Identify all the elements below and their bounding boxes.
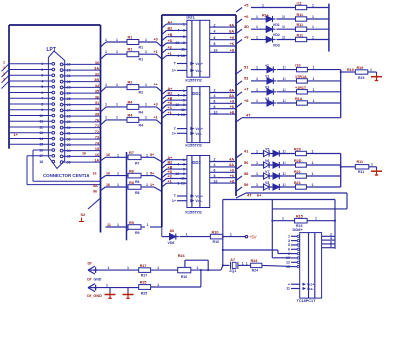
svg-text:1: 1: [256, 183, 258, 187]
svg-text:3: 3: [183, 163, 185, 167]
svg-text:+1: +1: [265, 63, 269, 67]
svg-text:R11: R11: [358, 170, 364, 174]
svg-text:ТС18РС1Т: ТС18РС1Т: [297, 299, 317, 303]
svg-text:R11: R11: [357, 160, 364, 164]
svg-text:31: 31: [95, 101, 99, 105]
svg-text:18: 18: [39, 160, 43, 164]
svg-text:+3: +3: [168, 46, 172, 50]
svg-text:96: 96: [93, 190, 97, 194]
svg-text:11: 11: [181, 177, 185, 181]
svg-text:R6: R6: [135, 180, 140, 184]
svg-text:R24: R24: [251, 259, 259, 263]
svg-text:1: 1: [105, 50, 107, 54]
svg-text:R1A: R1A: [295, 97, 303, 101]
svg-text:1: 1: [116, 38, 118, 42]
svg-text:+6: +6: [230, 174, 234, 178]
svg-text:1: 1: [177, 54, 179, 58]
svg-text:R11: R11: [297, 23, 304, 27]
svg-text:Vcc+: Vcc+: [195, 127, 203, 131]
svg-text:10: 10: [214, 110, 218, 114]
svg-text:1: 1: [108, 266, 110, 270]
svg-text:1: 1: [117, 153, 119, 157]
svg-text:1: 1: [197, 266, 199, 270]
svg-text:13: 13: [181, 181, 185, 185]
svg-text:К155ТЛ2: К155ТЛ2: [185, 210, 202, 215]
svg-text:V3: V3: [265, 86, 269, 90]
svg-text:1!: 1!: [283, 150, 286, 154]
svg-text:1!: 1!: [282, 36, 285, 40]
svg-text:R11: R11: [297, 34, 304, 38]
svg-text:+8: +8: [230, 110, 234, 114]
svg-text:13: 13: [286, 265, 290, 269]
svg-text:1: 1: [256, 15, 258, 19]
svg-text:1: 1: [117, 223, 119, 227]
svg-text:8A: 8A: [229, 163, 234, 167]
svg-text:16: 16: [106, 153, 110, 157]
svg-text:Vcc-: Vcc-: [195, 199, 202, 203]
svg-text:1: 1: [146, 153, 148, 157]
svg-text:11: 11: [286, 287, 290, 291]
svg-text:6: 6: [214, 100, 216, 104]
svg-text:16: 16: [106, 171, 110, 175]
svg-text:R1: R1: [139, 45, 144, 49]
svg-text:8: 8: [330, 244, 332, 248]
svg-text:+T: +T: [244, 87, 249, 92]
svg-text:4A: 4A: [229, 158, 234, 162]
svg-text:4: 4: [214, 30, 216, 34]
svg-text:R19: R19: [358, 76, 364, 80]
svg-text:1+: 1+: [172, 69, 176, 73]
svg-text:72: 72: [95, 130, 99, 134]
svg-text:R2: R2: [128, 81, 133, 85]
svg-text:DD2: DD2: [192, 91, 201, 96]
svg-text:36: 36: [95, 61, 99, 65]
svg-text:R21: R21: [294, 170, 301, 174]
svg-text:1!: 1!: [283, 172, 286, 176]
svg-text:1: 1: [256, 88, 258, 92]
svg-text:8A: 8A: [229, 94, 234, 98]
svg-text:9: 9: [183, 103, 185, 107]
svg-text:1: 1: [147, 223, 149, 227]
svg-text:1: 1: [186, 233, 188, 237]
svg-text:1: 1: [313, 99, 315, 103]
svg-text:1: 1: [230, 233, 232, 237]
svg-text:1: 1: [315, 217, 317, 221]
svg-text:1: 1: [262, 4, 264, 8]
svg-text:3B: 3B: [94, 78, 99, 82]
svg-text:CONNECTOR CENT16: CONNECTOR CENT16: [43, 173, 90, 178]
svg-text:+0: +0: [154, 38, 158, 42]
svg-text:2: 2: [214, 23, 216, 27]
svg-text:+5V: +5V: [249, 235, 257, 240]
svg-text:1: 1: [312, 25, 314, 29]
svg-text:1: 1: [183, 89, 185, 93]
svg-text:1: 1: [312, 150, 314, 154]
svg-text:13: 13: [181, 54, 185, 58]
svg-text:+D: +D: [168, 170, 173, 174]
svg-text:1: 1: [313, 66, 315, 70]
svg-text:3: 3: [183, 29, 185, 33]
svg-text:V4: V4: [265, 97, 269, 101]
svg-text:+8: +8: [230, 179, 234, 183]
svg-text:4: 4: [177, 29, 179, 33]
svg-text:+3: +3: [154, 103, 158, 107]
svg-text:9: 9: [183, 41, 185, 45]
svg-text:1: 1: [312, 183, 314, 187]
svg-text:35: 35: [95, 90, 99, 94]
svg-text:8A: 8A: [229, 30, 234, 34]
svg-text:+3: +3: [168, 106, 172, 110]
svg-text:1!: 1!: [282, 25, 285, 29]
svg-text:Vcc-: Vcc-: [195, 132, 202, 136]
svg-text:1!: 1!: [282, 15, 285, 19]
svg-text:32: 32: [95, 72, 99, 76]
svg-text:+1: +1: [168, 179, 172, 183]
svg-text:1: 1: [370, 68, 372, 72]
svg-text:R4: R4: [139, 110, 144, 114]
svg-text:DD8+: DD8+: [293, 227, 304, 232]
svg-text:1: 1: [256, 36, 258, 40]
svg-text:1: 1: [371, 162, 373, 166]
svg-text:10: 10: [175, 172, 179, 176]
svg-text:R19: R19: [357, 66, 364, 70]
svg-text:1: 1: [105, 116, 107, 120]
svg-text:Df: Df: [88, 261, 93, 266]
svg-text:R1: R1: [139, 58, 144, 62]
svg-text:A7: A7: [230, 258, 235, 262]
svg-text:50: 50: [244, 160, 248, 165]
svg-text:2: 2: [214, 89, 216, 93]
svg-text:+1: +1: [154, 116, 158, 120]
svg-text:6: 6: [214, 169, 216, 173]
svg-text:1: 1: [116, 83, 118, 87]
svg-text:+B: +B: [168, 96, 173, 100]
svg-text:1: 1: [256, 77, 258, 81]
svg-text:R11: R11: [297, 13, 304, 17]
svg-text:К155ТЛ2: К155ТЛ2: [185, 78, 202, 83]
svg-text:1: 1: [116, 50, 118, 54]
svg-text:1: 1: [242, 261, 244, 265]
svg-text:1!: 1!: [283, 183, 286, 187]
svg-text:5: 5: [183, 98, 185, 102]
svg-text:4T: 4T: [247, 193, 252, 198]
svg-text:+B: +B: [168, 165, 173, 169]
svg-text:VD2: VD2: [273, 33, 280, 37]
svg-text:1+: 1+: [14, 132, 19, 137]
svg-text:DD3: DD3: [192, 160, 201, 165]
svg-text:A+: A+: [168, 156, 173, 160]
svg-text:Df_GND: Df_GND: [87, 294, 102, 298]
svg-text:Vcc+: Vcc+: [195, 195, 203, 199]
svg-text:r10: r10: [295, 64, 301, 68]
svg-text:R10: R10: [212, 230, 219, 234]
svg-text:2: 2: [214, 158, 216, 162]
svg-text:+D: +D: [168, 101, 173, 105]
svg-text:1: 1: [3, 78, 5, 82]
svg-text:+1: +1: [154, 50, 158, 54]
svg-text:1: 1: [146, 183, 148, 187]
svg-text:1: 1: [116, 103, 118, 107]
svg-text:73: 73: [95, 136, 99, 140]
svg-text:R8: R8: [135, 191, 140, 195]
svg-text:1: 1: [3, 66, 5, 70]
svg-text:1!: 1!: [283, 88, 286, 92]
svg-text:1: 1: [312, 172, 314, 176]
svg-text:1: 1: [145, 103, 147, 107]
svg-text:76: 76: [95, 118, 99, 122]
svg-text:R1: R1: [128, 48, 133, 52]
svg-text:B2: B2: [168, 161, 173, 165]
svg-text:11: 11: [107, 223, 111, 227]
svg-text:1: 1: [177, 113, 179, 117]
svg-text:3: 3: [183, 94, 185, 98]
svg-text:DD1: DD1: [186, 15, 195, 20]
svg-text:R25: R25: [141, 291, 148, 295]
svg-text:1: 1: [183, 158, 185, 162]
svg-text:1+: 1+: [150, 183, 154, 187]
svg-text:R1: R1: [128, 35, 133, 39]
svg-text:+9: +9: [230, 36, 234, 40]
svg-text:39: 39: [95, 113, 99, 117]
svg-text:R16: R16: [181, 275, 188, 279]
svg-text:1: 1: [3, 72, 5, 76]
svg-text:16: 16: [82, 151, 86, 155]
svg-text:1: 1: [256, 172, 258, 176]
svg-text:1: 1: [183, 22, 185, 26]
svg-text:R19: R19: [347, 68, 354, 72]
svg-text:3A: 3A: [94, 67, 99, 71]
svg-text:1: 1: [246, 261, 248, 265]
svg-text:13: 13: [181, 113, 185, 117]
svg-text:1: 1: [282, 217, 284, 221]
svg-text:1: 1: [256, 99, 258, 103]
svg-text:+9: +9: [230, 169, 234, 173]
svg-text:36: 36: [95, 95, 99, 99]
svg-text:R17: R17: [140, 264, 147, 268]
svg-text:4D: 4D: [170, 229, 175, 233]
svg-text:1: 1: [312, 161, 314, 165]
svg-text:+6: +6: [230, 42, 234, 46]
svg-text:R25: R25: [140, 280, 147, 284]
svg-text:1: 1: [146, 172, 148, 176]
svg-text:1: 1: [145, 38, 147, 42]
svg-text:++: ++: [154, 83, 158, 87]
svg-text:+1R1T: +1R1T: [295, 86, 307, 90]
svg-text:1: 1: [117, 183, 119, 187]
svg-text:R9: R9: [129, 221, 134, 225]
svg-text:16: 16: [95, 153, 99, 157]
svg-text:B21: B21: [294, 181, 301, 185]
svg-text:Vcc+: Vcc+: [195, 62, 203, 66]
svg-text:10: 10: [214, 179, 218, 183]
svg-text:GND: GND: [94, 277, 102, 281]
svg-text:1TR1A: 1TR1A: [295, 75, 307, 79]
svg-text:10: 10: [175, 103, 179, 107]
svg-text:1: 1: [106, 284, 108, 288]
svg-text:R1+: R1+: [262, 13, 269, 17]
svg-text:4A: 4A: [229, 23, 234, 27]
svg-text:8: 8: [214, 42, 216, 46]
svg-text:4: 4: [177, 163, 179, 167]
svg-text:R20: R20: [294, 148, 301, 152]
svg-text:4: 4: [214, 94, 216, 98]
svg-text:Y5: Y5: [265, 147, 269, 151]
svg-text:6: 6: [214, 36, 216, 40]
svg-text:1: 1: [116, 116, 118, 120]
svg-text:R7: R7: [135, 162, 140, 166]
svg-text:Y1: Y1: [265, 75, 269, 79]
svg-text:+B: +B: [168, 33, 173, 37]
svg-text:5: 5: [183, 35, 185, 39]
svg-text:38: 38: [95, 107, 99, 111]
svg-text:S2: S2: [81, 213, 86, 217]
svg-text:1: 1: [3, 60, 5, 64]
svg-text:5: 5: [183, 167, 185, 171]
svg-text:VD1: VD1: [273, 23, 280, 27]
svg-text:R15: R15: [296, 214, 303, 218]
svg-text:1: 1: [312, 15, 314, 19]
svg-text:1: 1: [145, 116, 147, 120]
svg-text:1: 1: [312, 36, 314, 40]
svg-text:1A: 1A: [94, 159, 99, 163]
svg-text:4: 4: [177, 94, 179, 98]
svg-text:1+: 1+: [172, 199, 176, 203]
svg-text:8: 8: [214, 174, 216, 178]
svg-text:1: 1: [177, 181, 179, 185]
svg-text:9: 9: [183, 172, 185, 176]
svg-text:1+: 1+: [172, 132, 176, 136]
svg-text:B2: B2: [168, 27, 173, 31]
svg-text:R17: R17: [141, 274, 148, 278]
svg-text:R7: R7: [129, 151, 134, 155]
svg-text:ZQ1: ZQ1: [229, 269, 236, 273]
svg-text:Vcc-: Vcc-: [195, 69, 202, 73]
svg-text:R24: R24: [252, 269, 258, 273]
svg-text:10: 10: [214, 49, 218, 53]
svg-text:R2: R2: [139, 91, 144, 95]
svg-text:4: 4: [214, 163, 216, 167]
svg-text:R10: R10: [213, 240, 220, 244]
svg-text:6+: 6+: [257, 193, 262, 198]
svg-text:71: 71: [95, 124, 99, 128]
svg-text:5+: 5+: [150, 153, 154, 157]
svg-text:R16: R16: [178, 254, 185, 258]
svg-text:1: 1: [127, 266, 129, 270]
svg-text:1: 1: [145, 50, 147, 54]
svg-text:1: 1: [105, 83, 107, 87]
svg-text:1: 1: [157, 266, 159, 270]
svg-text:К155ТЛ2: К155ТЛ2: [185, 143, 202, 148]
svg-text:+8: +8: [230, 49, 234, 53]
svg-text:V8: V8: [265, 181, 269, 185]
svg-text:+D: +D: [168, 39, 173, 43]
svg-text:V7: V7: [265, 170, 269, 174]
svg-text:8: 8: [214, 105, 216, 109]
svg-text:+3: +3: [168, 175, 172, 179]
svg-text:1: 1: [256, 66, 258, 70]
svg-text:1: 1: [145, 83, 147, 87]
svg-text:1: 1: [105, 103, 107, 107]
svg-text:1: 1: [312, 4, 314, 8]
svg-text:1: 1: [105, 38, 107, 42]
svg-text:11: 11: [181, 108, 185, 112]
svg-text:16: 16: [106, 183, 110, 187]
svg-text:Vcc-: Vcc-: [307, 287, 314, 291]
svg-text:10: 10: [175, 41, 179, 45]
svg-text:15: 15: [95, 147, 99, 151]
svg-text:5A: 5A: [93, 184, 98, 188]
svg-text:VD6: VD6: [168, 241, 175, 245]
svg-text:+1: +1: [168, 52, 172, 56]
svg-text:R6: R6: [129, 169, 134, 173]
svg-text:+1: +1: [168, 111, 172, 115]
svg-text:R2D: R2D: [294, 159, 302, 163]
svg-text:1: 1: [157, 283, 159, 287]
svg-text:4T: 4T: [246, 113, 251, 118]
svg-text:5+: 5+: [150, 171, 154, 175]
svg-text:1!: 1!: [283, 161, 286, 165]
svg-text:R4: R4: [139, 123, 144, 127]
svg-text:A+: A+: [168, 87, 173, 91]
svg-text:VD3: VD3: [273, 43, 280, 47]
svg-text:1: 1: [256, 25, 258, 29]
svg-text:1!: 1!: [283, 99, 286, 103]
svg-text:4A: 4A: [229, 89, 234, 93]
svg-text:1!: 1!: [283, 77, 286, 81]
svg-text:1: 1: [117, 172, 119, 176]
svg-text:1: 1: [256, 161, 258, 165]
svg-text:1: 1: [256, 150, 258, 154]
svg-text:11: 11: [181, 48, 185, 52]
svg-text:+6: +6: [230, 105, 234, 109]
svg-text:A+: A+: [168, 20, 173, 24]
svg-text:V6: V6: [265, 159, 269, 163]
svg-text:3D: 3D: [244, 24, 249, 29]
svg-text:16: 16: [93, 171, 97, 175]
svg-text:+9: +9: [230, 100, 234, 104]
svg-text:R8: R8: [129, 181, 134, 185]
svg-text:B2: B2: [168, 92, 173, 96]
svg-text:1: 1: [313, 77, 315, 81]
svg-text:r11: r11: [297, 2, 302, 6]
svg-text:1: 1: [313, 88, 315, 92]
svg-text:R9: R9: [135, 231, 140, 235]
svg-text:1!: 1!: [283, 66, 286, 70]
